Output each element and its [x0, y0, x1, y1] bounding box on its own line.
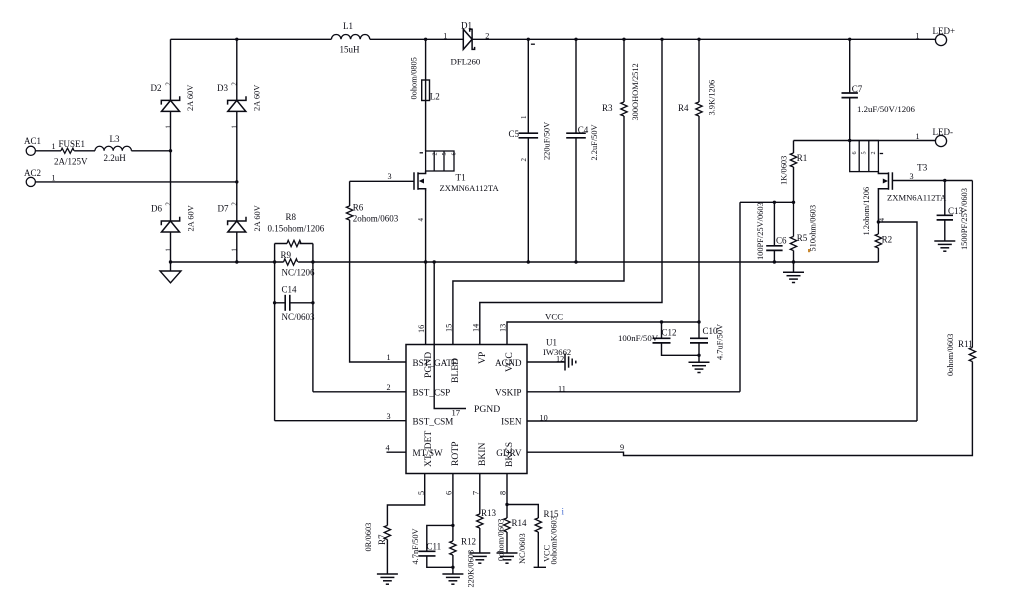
ground R5 C6	[783, 272, 804, 282]
svg-text:2: 2	[164, 82, 172, 86]
junction C10 C12	[697, 354, 700, 357]
junction C11 top	[451, 524, 454, 527]
svg-text:13: 13	[499, 324, 508, 332]
wire LED- to R1	[793, 141, 795, 154]
svg-text:BST_CSM: BST_CSM	[413, 417, 454, 427]
wire pin 5 to R7	[387, 474, 424, 526]
resistor R11	[969, 181, 975, 362]
svg-text:3: 3	[387, 412, 391, 421]
svg-text:DFL260: DFL260	[451, 57, 481, 67]
wire BST_CSP to pin 2	[313, 391, 406, 393]
svg-text:ZXMN6A112TA: ZXMN6A112TA	[440, 183, 500, 193]
resistor R6	[346, 206, 352, 220]
junction C6 top	[773, 201, 776, 204]
resistor R12	[450, 541, 456, 555]
svg-text:D6: D6	[151, 204, 162, 214]
svg-text:C11: C11	[427, 542, 442, 552]
svg-text:BKCS: BKCS	[504, 442, 515, 467]
wire top rail D1 to LED+	[472, 38, 935, 40]
svg-text:BST_CSP: BST_CSP	[413, 388, 451, 398]
wire C10 to ground	[698, 343, 700, 362]
svg-text:D2: D2	[151, 83, 162, 93]
wire MT/SW stub pin 4	[387, 451, 407, 453]
svg-text:1: 1	[520, 115, 528, 119]
wire C5 to ground rail	[527, 138, 529, 262]
junction C7 rail	[848, 38, 851, 41]
wire D2 anode to D6 cathode	[170, 111, 172, 221]
wire AC1 to FUSE1	[35, 150, 61, 152]
wire rail to R3	[623, 39, 625, 102]
svg-text:8: 8	[499, 491, 508, 495]
ground AGND	[565, 354, 576, 371]
svg-text:PGND: PGND	[423, 352, 434, 378]
capacitor C7	[842, 93, 858, 98]
svg-text:R2: R2	[882, 235, 893, 245]
junction D7 ground rail	[235, 260, 238, 263]
svg-text:1: 1	[231, 125, 239, 129]
net VCC tick	[534, 566, 546, 568]
svg-text:3: 3	[910, 172, 914, 181]
svg-text:C14: C14	[282, 285, 298, 295]
svg-text:5: 5	[860, 151, 867, 154]
wire L1 to D1	[370, 38, 464, 40]
resistor R5	[790, 202, 796, 250]
diode D1	[463, 29, 474, 49]
wire R11 to GDRV pin 9	[527, 362, 972, 456]
artifact colored speck	[808, 249, 810, 252]
svg-text:VCC: VCC	[543, 544, 552, 562]
wire ground rail left section	[171, 261, 284, 263]
svg-text:1: 1	[52, 142, 56, 151]
svg-text:4: 4	[386, 444, 390, 453]
capacitor C6	[766, 246, 782, 251]
wire FUSE1 to L3	[74, 150, 95, 152]
svg-text:1: 1	[231, 248, 239, 252]
capacitor C5	[519, 133, 539, 138]
wire rail to R4	[698, 39, 700, 102]
wire CSP node vertical	[312, 244, 314, 392]
svg-text:300OHOM/2512: 300OHOM/2512	[631, 63, 640, 120]
wire C12 to C10 bottom	[662, 343, 700, 355]
svg-text:1: 1	[443, 32, 447, 41]
svg-text:LED-: LED-	[933, 127, 954, 137]
wire VSKIP vertical	[739, 202, 741, 391]
wire R6 to BST_GATE pin 1	[350, 220, 406, 362]
capacitor C14	[285, 295, 290, 311]
resistor R14	[504, 518, 510, 532]
svg-text:C12: C12	[662, 328, 677, 338]
fuse FUSE1	[61, 148, 74, 153]
svg-text:2A 60V: 2A 60V	[187, 205, 196, 231]
svg-text:BKIN: BKIN	[477, 442, 488, 466]
svg-text:0ohom/0603: 0ohom/0603	[946, 334, 955, 376]
junction VP rail	[660, 38, 663, 41]
terminal AC2	[26, 177, 35, 186]
junction R1 R5	[792, 201, 795, 204]
junction AC1 / D2-D6 node	[169, 149, 172, 152]
svg-text:16: 16	[417, 325, 426, 333]
svg-text:15uH: 15uH	[340, 44, 361, 54]
junction bridge ground	[169, 260, 172, 263]
wire pin 8 down	[506, 474, 508, 519]
wire T1 source to rail and PGND pin16	[425, 191, 427, 345]
svg-text:15: 15	[445, 324, 454, 332]
junction R4 rail	[697, 38, 700, 41]
svg-text:VSKIP: VSKIP	[495, 388, 522, 398]
ground R12	[442, 574, 463, 584]
inductor L3	[95, 146, 131, 151]
svg-text:FUSE1: FUSE1	[59, 139, 86, 149]
svg-text:NC/1206: NC/1206	[282, 268, 316, 278]
wire pin 7 down	[479, 474, 481, 515]
capacitor C4	[566, 133, 586, 138]
svg-text:14: 14	[472, 324, 481, 332]
svg-text:C7: C7	[852, 84, 863, 94]
svg-text:220K/0603: 220K/0603	[467, 550, 476, 588]
svg-text:VCC: VCC	[545, 312, 563, 322]
svg-text:R9: R9	[281, 250, 292, 260]
junction C4 ground rail	[574, 260, 577, 263]
svg-text:LED+: LED+	[933, 26, 956, 36]
svg-text:PGND: PGND	[474, 404, 500, 415]
svg-text:C4: C4	[578, 125, 589, 135]
svg-text:NC/0603: NC/0603	[282, 312, 316, 322]
svg-text:ZXMN6A112TA: ZXMN6A112TA	[887, 193, 947, 203]
ground R7	[377, 574, 398, 584]
svg-text:L3: L3	[110, 134, 120, 144]
diode D2	[161, 96, 179, 111]
wire R2 to ground rail	[877, 248, 879, 262]
wire rail to C5	[527, 39, 529, 133]
svg-text:2.2uH: 2.2uH	[104, 153, 127, 163]
svg-text:R1: R1	[797, 153, 808, 163]
wire rail to VP pin 14	[480, 39, 662, 344]
wire ISEN sense up	[878, 222, 917, 421]
junction C7 LED-	[848, 139, 851, 142]
svg-text:C6: C6	[776, 236, 787, 246]
wire rail to C4	[575, 39, 577, 133]
svg-text:510ohm/0603: 510ohm/0603	[809, 205, 818, 252]
svg-text:0R/0603: 0R/0603	[364, 523, 373, 552]
wire T1 gate	[350, 180, 414, 182]
junction R3 rail	[622, 38, 625, 41]
terminal LED+	[935, 34, 946, 45]
ground bridge	[160, 262, 181, 283]
wire rail to C7	[849, 39, 851, 93]
svg-text:3: 3	[388, 172, 392, 181]
svg-text:2: 2	[164, 202, 172, 206]
wire C13 to ground	[944, 220, 946, 241]
diode D7	[228, 217, 246, 232]
wire ground rail right section	[298, 261, 878, 263]
wire C11 branch top	[427, 525, 453, 551]
wire ISEN pin 10	[527, 420, 917, 422]
wire BST_CSM to pin 3	[275, 420, 406, 422]
inductor L2 (0 ohm)	[422, 80, 430, 101]
svg-text:AC2: AC2	[24, 168, 41, 178]
svg-text:1K/0603: 1K/0603	[780, 156, 789, 185]
wire top rail to L1	[171, 38, 332, 40]
svg-text:ISEN: ISEN	[501, 417, 522, 427]
capacitor C13	[937, 215, 953, 220]
capacitor C12	[653, 338, 671, 343]
svg-text:R13: R13	[481, 508, 497, 518]
svg-text:2: 2	[387, 383, 391, 392]
svg-text:2: 2	[431, 152, 438, 155]
svg-text:6: 6	[451, 152, 458, 155]
svg-text:2: 2	[870, 151, 877, 154]
svg-text:2A 60V: 2A 60V	[253, 205, 262, 231]
resistor R4	[696, 102, 702, 116]
svg-text:4.7nF/50V: 4.7nF/50V	[411, 528, 420, 564]
svg-text:2A/125V: 2A/125V	[54, 156, 88, 166]
capacitor C10	[690, 338, 708, 343]
svg-text:AC1: AC1	[24, 136, 41, 146]
wire R15 to VCC	[537, 532, 539, 567]
wire pin 6 down	[452, 474, 454, 542]
wire C14 loop	[275, 302, 313, 304]
svg-text:VCC: VCC	[504, 352, 515, 372]
svg-text:1.2ohom/1206: 1.2ohom/1206	[862, 187, 871, 236]
svg-text:1: 1	[916, 32, 920, 41]
wire R4 to VCC pin 13	[507, 116, 699, 345]
junction R14 R15	[505, 503, 508, 506]
svg-text:D3: D3	[217, 83, 228, 93]
wire VCC to C10	[698, 322, 700, 338]
junction CSM C14	[273, 301, 276, 304]
wire LED- line	[794, 140, 936, 142]
svg-text:C5: C5	[509, 129, 520, 139]
svg-text:11: 11	[558, 385, 566, 394]
junction C11 bottom	[451, 566, 454, 569]
wire to R15	[507, 505, 538, 519]
svg-text:R11: R11	[958, 339, 973, 349]
junction C10 VCC	[697, 320, 700, 323]
svg-text:100nF/50V: 100nF/50V	[618, 333, 659, 343]
svg-text:2: 2	[520, 158, 528, 162]
svg-text:1500PF/25V/0603: 1500PF/25V/0603	[960, 188, 969, 250]
svg-text:R12: R12	[461, 537, 476, 547]
svg-text:1: 1	[164, 125, 172, 129]
wire C6 to ground rail	[773, 250, 775, 262]
wire C11 branch bottom	[427, 556, 453, 567]
inductor L1	[331, 34, 369, 39]
wire C7 to LED- line	[849, 98, 851, 141]
svg-text:XT_DET: XT_DET	[423, 431, 434, 467]
svg-text:R7: R7	[377, 534, 387, 545]
wire R5 to ground rail	[793, 251, 795, 263]
resistor R2	[875, 222, 881, 248]
resistor R1	[790, 153, 796, 167]
svg-text:L1: L1	[343, 21, 353, 31]
resistor R8	[287, 240, 301, 246]
svg-text:D1: D1	[461, 21, 472, 31]
junction C4 rail	[574, 38, 577, 41]
ground C10	[689, 362, 710, 372]
svg-text:NC/0603: NC/0603	[518, 533, 527, 564]
wire R13 to ground	[479, 528, 481, 553]
wire D6 anode to ground rail	[170, 232, 172, 262]
svg-text:R14: R14	[512, 518, 528, 528]
op-amp U1 IW3662 body	[406, 345, 527, 474]
wire R1 to VSKIP node	[793, 167, 795, 202]
wire AC2 to D3-D7 node	[35, 181, 236, 183]
wire L3 to bridge node	[131, 150, 170, 152]
junction T1 source ground rail	[424, 260, 427, 263]
junction CSP C14	[311, 301, 314, 304]
transistor T3 package	[850, 141, 883, 172]
junction AC2 / D3-D7 node	[235, 180, 238, 183]
diode D3	[228, 96, 246, 111]
wire VCC to C12	[661, 322, 663, 338]
svg-text:10: 10	[540, 414, 548, 423]
svg-text:2A 60V: 2A 60V	[186, 85, 195, 111]
svg-text:R6: R6	[353, 203, 364, 213]
junction C6 ground rail	[773, 260, 776, 263]
svg-text:2.2uF/50V: 2.2uF/50V	[590, 124, 599, 160]
wire R14 to ground	[506, 532, 508, 553]
svg-text:1: 1	[387, 353, 391, 362]
junction C13 gate	[943, 179, 946, 182]
ground R14	[497, 553, 518, 563]
svg-text:4: 4	[417, 218, 425, 222]
svg-text:R4: R4	[678, 103, 689, 113]
svg-text:1: 1	[916, 132, 920, 141]
svg-text:L2: L2	[430, 92, 440, 102]
capacitor C11	[418, 551, 435, 556]
svg-text:D7: D7	[218, 204, 229, 214]
svg-text:6: 6	[851, 151, 858, 154]
junction T3 source R2 ISEN	[877, 220, 880, 223]
wire R12 to ground	[452, 555, 454, 574]
polarity mark C5	[531, 43, 535, 45]
resistor R7	[384, 526, 390, 540]
svg-text:R3: R3	[602, 103, 613, 113]
svg-text:ROTP: ROTP	[450, 441, 461, 466]
wire D3 anode to D7 cathode	[236, 111, 238, 221]
transistor T1 package	[420, 151, 454, 171]
junction C12 VCC	[660, 320, 663, 323]
svg-text:T3: T3	[917, 164, 928, 174]
junction D3 top rail	[235, 38, 238, 41]
svg-text:9: 9	[620, 443, 624, 452]
junction R5 ground rail	[792, 260, 795, 263]
ground C13	[934, 241, 955, 251]
wire top rail to D2 cathode	[170, 39, 172, 100]
wire R3 to BLED pin 15	[453, 116, 624, 345]
wire R8 top loop	[275, 243, 313, 245]
resistor R9	[284, 259, 298, 265]
ground R13	[469, 553, 490, 563]
svg-text:1.2uF/50V/1206: 1.2uF/50V/1206	[857, 104, 916, 114]
resistor R15	[535, 518, 541, 532]
svg-text:5: 5	[441, 152, 448, 155]
svg-text:1: 1	[52, 173, 56, 182]
diode D6	[161, 217, 179, 232]
svg-text:3.9K/1206: 3.9K/1206	[708, 80, 717, 116]
wire drain line through L2	[425, 39, 427, 151]
terminal AC1	[26, 146, 35, 155]
wire ground stub	[793, 262, 795, 272]
wire D7 anode to ground rail	[236, 232, 238, 262]
transistor T1	[414, 171, 426, 191]
svg-text:U1: U1	[546, 338, 557, 348]
junction CSP rail	[311, 260, 314, 263]
wire CSM node vertical	[274, 244, 276, 421]
wire VSKIP node top	[740, 201, 794, 203]
svg-text:2A 60V: 2A 60V	[253, 85, 262, 111]
junction C5 rail	[527, 38, 530, 41]
transistor T3	[878, 172, 892, 222]
svg-text:R8: R8	[286, 212, 297, 222]
wire gate to R6	[349, 181, 351, 206]
svg-text:1: 1	[164, 248, 172, 252]
wire R7 to ground	[386, 540, 388, 575]
svg-text:2: 2	[231, 82, 239, 86]
svg-text:R5: R5	[797, 233, 808, 243]
svg-text:0.15ohom/1206: 0.15ohom/1206	[268, 223, 325, 233]
wire T3 gate to R11	[892, 180, 972, 182]
resistor R3	[621, 102, 627, 116]
svg-text:220uF/50V: 220uF/50V	[543, 122, 552, 160]
wire PGND pin 17	[434, 262, 466, 409]
junction C5 ground rail	[527, 260, 530, 263]
wire gate to C13	[944, 181, 946, 216]
junction pin17 ground rail	[433, 260, 436, 263]
wire top rail to D3 cathode	[236, 39, 238, 100]
wire VSKIP pin 11	[527, 391, 740, 393]
svg-text:2: 2	[231, 202, 239, 206]
junction T1 drain rail	[424, 38, 427, 41]
svg-text:4.7uF/50V: 4.7uF/50V	[716, 324, 725, 360]
wire to C6	[773, 202, 775, 246]
junction CSM rail	[273, 260, 276, 263]
terminal LED-	[935, 135, 946, 146]
svg-text:0ohom/0805: 0ohom/0805	[410, 57, 419, 99]
wire C4 to ground rail	[575, 138, 577, 262]
svg-text:2ohom/0603: 2ohom/0603	[353, 214, 399, 224]
wire AGND pin 12	[527, 361, 565, 363]
resistor R13	[477, 514, 483, 528]
svg-text:VP: VP	[477, 352, 488, 364]
svg-text:6: 6	[445, 491, 454, 495]
svg-text:BLED: BLED	[450, 358, 461, 383]
svg-text:100PF/25V/0603: 100PF/25V/0603	[756, 202, 765, 260]
